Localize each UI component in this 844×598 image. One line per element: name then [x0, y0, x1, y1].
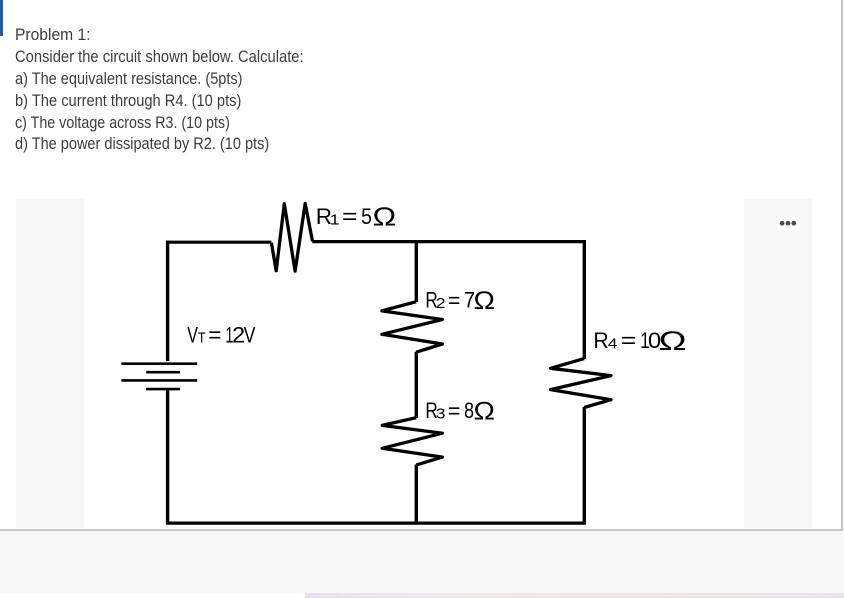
horizontal border under document	[0, 529, 843, 530]
resistor R1	[271, 203, 312, 271]
svg-text:Ω: Ω	[474, 287, 495, 315]
wire top left segment	[166, 241, 271, 244]
svg-text:=: =	[448, 398, 461, 424]
resistor R4	[551, 359, 611, 408]
svg-text:T: T	[198, 329, 206, 346]
svg-text:=: =	[448, 287, 461, 313]
label R1 = 5&#937;	[316, 203, 396, 231]
more (...) button	[777, 217, 800, 230]
wire left vertical lower (battery to bottom)	[166, 390, 169, 525]
bottom gray band	[0, 531, 844, 593]
blue bar	[0, 0, 3, 36]
wire top right segment	[312, 240, 586, 243]
bottom colored strip	[305, 593, 844, 598]
svg-text:5: 5	[361, 205, 372, 230]
svg-text:=: =	[621, 328, 637, 353]
wire right vertical lower	[583, 407, 586, 525]
resistor R3	[382, 418, 442, 465]
svg-text:V: V	[187, 323, 198, 348]
label VT = 12V	[187, 322, 256, 349]
wire middle vertical lower	[415, 465, 418, 525]
svg-text:=: =	[342, 205, 358, 230]
dots of more button	[780, 221, 796, 226]
label R2 = 7&#937;	[425, 287, 495, 315]
svg-text:R: R	[593, 327, 608, 353]
svg-text:=: =	[208, 322, 221, 347]
labels	[187, 203, 686, 425]
svg-text:1: 1	[330, 212, 340, 228]
wire bottom	[166, 521, 586, 524]
svg-text:Ω: Ω	[474, 397, 495, 425]
label R3 = 8&#937;	[425, 397, 495, 425]
svg-text:Ω: Ω	[659, 326, 687, 356]
wire middle vertical upper	[415, 242, 418, 302]
svg-text:4: 4	[608, 335, 618, 352]
svg-text:2: 2	[436, 295, 446, 312]
wire right vertical upper	[583, 241, 586, 359]
right vertical border	[841, 0, 843, 531]
right gray panel	[744, 199, 812, 528]
svg-text:Ω: Ω	[373, 203, 397, 231]
wire left vertical	[166, 241, 169, 361]
svg-text:V: V	[244, 323, 256, 347]
svg-text:3: 3	[436, 406, 446, 423]
wire middle vertical between R2 and R3	[415, 352, 418, 418]
left gray panel	[16, 199, 85, 528]
battery VT plates	[121, 362, 197, 365]
resistor R2	[382, 302, 443, 353]
label R4 = 10&#937;	[593, 326, 686, 356]
question text	[15, 24, 91, 46]
